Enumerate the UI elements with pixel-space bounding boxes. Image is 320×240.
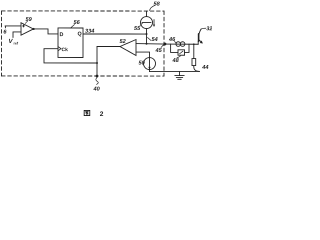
svg-text:50: 50 [138,61,145,67]
svg-text:6: 6 [3,29,7,35]
current direction arrow [153,20,155,28]
junction 334 node [146,33,148,35]
label 54 [148,37,159,43]
junction base resistor tap [193,43,195,45]
svg-text:54: 54 [152,37,159,43]
op-amp buffer 52 (points left) [120,40,136,56]
svg-text:2: 2 [100,111,104,118]
junction dot comparator output [33,28,35,30]
svg-text:45: 45 [155,48,163,54]
label 45 [155,45,165,55]
wire amp output to clock vertical [97,45,120,47]
wire branch return [185,44,190,52]
svg-text:Q: Q [78,31,82,37]
component 48 box [178,50,185,55]
clock triangle [58,47,61,51]
wire source 55 bottom to node [146,29,148,44]
svg-text:334: 334 [85,29,95,35]
inductor 46 (two loops) [176,42,185,47]
label 40 [92,77,100,92]
current source U50 circle [143,58,155,70]
boundary dashed box [1,11,164,76]
caption 图 (drawn glyph) [84,110,90,115]
svg-text:52: 52 [120,39,127,45]
emitter lead with arrow [199,40,203,44]
wire source 55 top to border pin 58 [146,11,148,16]
svg-text:40: 40 [92,86,100,92]
node pin 40 dot [96,75,99,78]
svg-text:ref: ref [14,42,19,46]
resistor R44 [192,59,196,66]
label 48 [171,56,180,64]
svg-text:48: 48 [171,58,179,64]
wire resistor tap down [193,44,195,58]
current source U55 circle [141,17,153,29]
wire clock net [44,49,97,63]
wire input to comparator [5,25,21,27]
transistor Q1 base bar [198,34,200,41]
svg-text:58: 58 [154,2,161,8]
svg-text:56: 56 [74,20,81,26]
wire resistor to ground rail [194,66,200,72]
svg-text:44: 44 [201,65,209,71]
svg-text:Ck: Ck [62,47,69,53]
label 58 [150,2,161,11]
arrowhead source 50 [148,67,150,70]
wire comparator to flip-flop D [34,29,58,34]
ground [175,72,184,80]
wire base rise [197,41,199,44]
flip-flop U 56 box [58,28,83,58]
wire amp lower input [136,52,150,58]
label 46 [168,37,177,43]
label 59 [26,17,33,24]
svg-text:D: D [60,32,64,38]
label 56 [71,20,81,28]
svg-text:55: 55 [134,26,141,32]
line through source 50 [148,58,150,70]
label 32 [201,26,213,32]
wire pin 45 to transistor base [165,43,198,45]
wire Q output 334 [83,33,146,35]
Vref label [9,39,19,46]
collector lead [199,29,201,34]
wire source 50 bottom to ground rail [149,70,199,72]
mark inside 48 [180,51,184,54]
wire parallel branch [171,44,178,52]
junction clock tee [96,62,98,64]
node pin 45 dot [164,43,167,46]
bar inside source 55 [142,22,151,24]
wire Vref to comparator [13,32,21,38]
op-amp comparator 59 [21,23,33,35]
wire clock vertical to pin 40 [96,46,98,75]
label 55 [134,23,143,32]
input terminal [4,26,6,28]
svg-text:32: 32 [206,26,212,32]
junction node to amp input [146,43,148,45]
wire amp upper input [136,43,165,46]
